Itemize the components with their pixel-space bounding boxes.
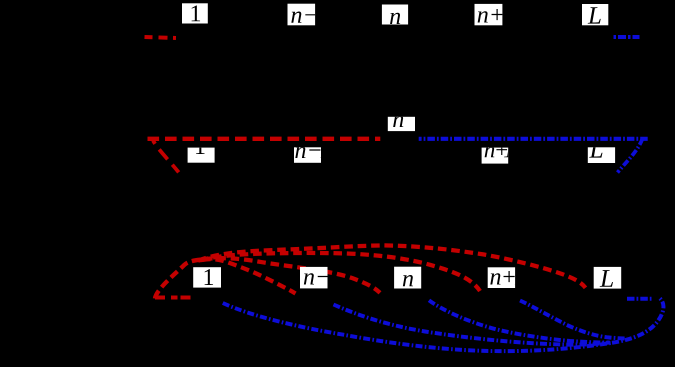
node 1 (top row label box) bbox=[182, 3, 208, 23]
wire: red short bond at left (1-2) bbox=[155, 296, 192, 300]
node 1 (bottom row label box) bbox=[193, 267, 221, 287]
node n+1 (top row label box) bbox=[475, 4, 503, 25]
wire: red arc 1 to n bbox=[204, 258, 380, 293]
node 1 (middle row, below chain) bbox=[188, 148, 215, 163]
wire: blue arc L to n+1 bbox=[520, 301, 627, 339]
node L (top row label box) bbox=[582, 4, 608, 25]
wire: red arc 1 to L bbox=[198, 245, 586, 287]
wire: blue common right hook of arcs into site L bbox=[612, 298, 663, 343]
wire: red arc 1 to n-1 bbox=[202, 259, 296, 293]
wire: red dashed bond segment top-left bbox=[145, 37, 177, 38]
wire: blue dash-dot wrap-around at right end bbox=[618, 139, 643, 173]
node n+1 (middle row, below chain) bbox=[482, 148, 509, 164]
node L (middle row, below chain) bbox=[588, 147, 615, 163]
wire: red arc 1 to n+1 bbox=[200, 253, 480, 291]
node n (bottom row label box) bbox=[394, 267, 421, 289]
node n-1 (bottom row label box) bbox=[300, 267, 328, 289]
node n-1 (middle row, below chain) bbox=[294, 147, 321, 163]
node n+1 (bottom row label box) bbox=[488, 267, 515, 288]
wire: blue dash-dot bond segment top-right bbox=[614, 35, 640, 39]
wire: blue dash-dot chain right half bbox=[419, 137, 649, 141]
node n (top row label box) bbox=[382, 5, 408, 25]
wire: blue arc L to 1 bbox=[223, 303, 612, 351]
node n-1 (top row label box) bbox=[288, 4, 316, 26]
node n (middle row, above chain) bbox=[388, 117, 415, 131]
node L (bottom row label box) bbox=[594, 267, 622, 289]
wire: red common left rise of arcs from site 1 bbox=[155, 259, 206, 298]
wire: red dashed wrap-around at left end bbox=[153, 141, 180, 175]
wire: blue arc L to n-1 bbox=[334, 305, 611, 345]
wire: blue arc L to n bbox=[429, 300, 609, 342]
wire: blue short bond at right (L-1,L) bbox=[627, 297, 652, 301]
wire: red dashed chain left half bbox=[148, 137, 381, 141]
